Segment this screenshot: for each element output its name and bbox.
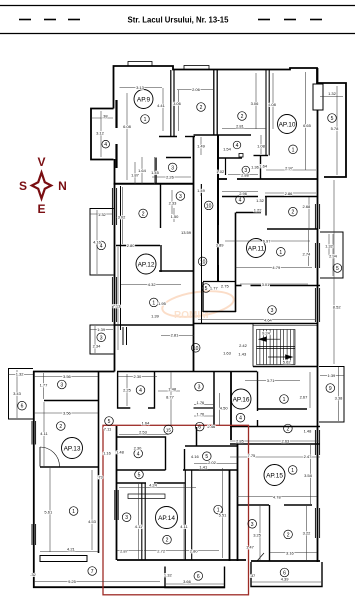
- right balcony 9: [319, 367, 344, 423]
- shaft rect top right: [313, 84, 323, 110]
- AP15 walls: [230, 443, 320, 445]
- svg-text:.38: .38: [102, 113, 108, 118]
- svg-text:1.22: 1.22: [254, 208, 263, 213]
- svg-text:1.47: 1.47: [246, 544, 255, 549]
- svg-text:2.85: 2.85: [236, 439, 245, 444]
- corridor east wall: [217, 135, 219, 281]
- AP16 kitchen box: [118, 372, 131, 408]
- svg-text:3.58: 3.58: [304, 473, 313, 478]
- AP9 divider wall: [170, 70, 172, 137]
- svg-text:.37: .37: [250, 573, 256, 578]
- svg-text:AP.9: AP.9: [137, 97, 151, 104]
- svg-text:4: 4: [239, 416, 242, 422]
- svg-text:2: 2: [200, 105, 203, 111]
- svg-text:2.96: 2.96: [239, 191, 248, 196]
- svg-text:2: 2: [292, 210, 295, 216]
- window left wall upper: [111, 188, 113, 225]
- svg-text:2.47: 2.47: [304, 454, 313, 459]
- svg-text:9.24: 9.24: [262, 331, 271, 336]
- svg-text:2.97: 2.97: [285, 166, 294, 171]
- title dashed street centerline: [19, 19, 322, 21]
- svg-text:7.75: 7.75: [248, 453, 257, 458]
- svg-text:3: 3: [100, 335, 103, 341]
- AP9 bath box: [155, 158, 157, 185]
- svg-text:AP.12: AP.12: [138, 262, 155, 269]
- svg-text:1.43: 1.43: [238, 352, 247, 357]
- svg-text:1.63: 1.63: [223, 351, 232, 356]
- svg-text:1.02: 1.02: [216, 169, 225, 174]
- svg-text:4.64: 4.64: [264, 317, 273, 322]
- svg-text:6: 6: [198, 425, 201, 431]
- outer wall top AP.9 and right side: [114, 66, 347, 177]
- svg-text:5: 5: [336, 266, 339, 272]
- svg-text:3: 3: [179, 194, 182, 200]
- svg-text:1.50: 1.50: [171, 214, 180, 219]
- svg-text:2.63: 2.63: [282, 439, 291, 444]
- svg-text:5: 5: [108, 419, 111, 425]
- svg-text:6.65: 6.65: [303, 123, 312, 128]
- svg-text:N: N: [58, 179, 67, 193]
- svg-text:2.34: 2.34: [93, 343, 102, 348]
- title bottom rule: [0, 33, 355, 35]
- svg-text:1.39: 1.39: [328, 373, 337, 378]
- svg-text:8.77: 8.77: [166, 395, 175, 400]
- svg-text:4.78: 4.78: [273, 494, 282, 499]
- svg-text:5.61: 5.61: [44, 510, 53, 515]
- bottom wall: [33, 586, 225, 588]
- svg-text:4: 4: [139, 388, 142, 394]
- left wall main: [114, 159, 116, 372]
- svg-text:4.11: 4.11: [180, 524, 188, 529]
- svg-text:2.94: 2.94: [329, 253, 338, 258]
- svg-text:1: 1: [292, 147, 295, 153]
- svg-text:10: 10: [193, 346, 199, 352]
- svg-text:4.11: 4.11: [135, 524, 143, 529]
- svg-text:7.13: 7.13: [113, 303, 122, 308]
- svg-text:1: 1: [144, 117, 147, 123]
- svg-text:9: 9: [329, 386, 332, 392]
- svg-text:3: 3: [125, 515, 128, 521]
- svg-text:2: 2: [142, 211, 145, 217]
- svg-text:5.62: 5.62: [283, 360, 292, 365]
- svg-text:2.74: 2.74: [303, 251, 312, 256]
- svg-text:2.30: 2.30: [134, 446, 143, 451]
- svg-text:4: 4: [239, 198, 242, 204]
- svg-text:1.77: 1.77: [210, 286, 219, 291]
- balcony parapet above AP.10: [184, 66, 209, 70]
- svg-text:S: S: [19, 179, 27, 193]
- svg-text:5.51: 5.51: [219, 513, 228, 518]
- svg-text:3.56: 3.56: [63, 374, 72, 379]
- AP13 interior: [44, 400, 98, 402]
- AP12 interior: [120, 186, 122, 330]
- svg-text:2.81: 2.81: [236, 124, 245, 129]
- svg-text:1.45: 1.45: [151, 170, 160, 175]
- svg-text:4.16: 4.16: [93, 240, 102, 245]
- left balcony 3 lower: [90, 325, 114, 354]
- right outer wall: [317, 68, 319, 562]
- AP9/AP10 party wall: [213, 70, 215, 135]
- svg-text:1.64: 1.64: [259, 163, 268, 168]
- svg-text:1.32: 1.32: [164, 573, 173, 578]
- svg-text:3: 3: [171, 165, 174, 171]
- window left wall lower: [111, 277, 113, 322]
- svg-text:.32: .32: [30, 572, 36, 577]
- corridor west wall: [193, 137, 195, 372]
- svg-text:2.86: 2.86: [285, 191, 294, 196]
- AP14 west party wall: [116, 426, 118, 560]
- svg-text:1.32: 1.32: [328, 91, 337, 96]
- svg-text:1: 1: [283, 397, 286, 403]
- svg-text:1.64: 1.64: [138, 168, 147, 173]
- svg-text:15: 15: [166, 428, 172, 433]
- AP16 top wall: [117, 371, 257, 373]
- svg-text:AP.10: AP.10: [279, 122, 296, 129]
- AP.13 left wall: [33, 371, 35, 588]
- svg-text:4: 4: [104, 142, 107, 148]
- svg-text:1.64: 1.64: [142, 420, 151, 425]
- svg-text:2.81: 2.81: [171, 333, 180, 338]
- AP9/12 big horizontal wall: [114, 183, 194, 185]
- left shaft block 4: [91, 109, 114, 160]
- svg-text:2.80: 2.80: [190, 548, 199, 553]
- svg-text:5: 5: [205, 286, 208, 292]
- dimension texts: [13, 85, 343, 584]
- right balcony 5 lower mid: [320, 232, 343, 278]
- svg-text:2.53: 2.53: [139, 429, 148, 434]
- svg-text:13.59: 13.59: [181, 230, 192, 235]
- svg-text:3.66: 3.66: [183, 579, 192, 584]
- svg-text:3.06: 3.06: [173, 101, 182, 106]
- svg-text:2.88: 2.88: [241, 173, 250, 178]
- AP.13 left balcony 6: [9, 369, 34, 420]
- svg-text:2.68: 2.68: [303, 204, 312, 209]
- svg-text:2.72: 2.72: [157, 548, 166, 553]
- svg-text:1.32: 1.32: [325, 244, 334, 249]
- svg-text:9.25: 9.25: [68, 579, 77, 584]
- svg-text:3.43: 3.43: [13, 391, 22, 396]
- svg-text:10: 10: [206, 203, 212, 209]
- svg-text:3.38: 3.38: [335, 396, 344, 401]
- svg-text:2.26: 2.26: [166, 175, 175, 180]
- svg-text:4.53: 4.53: [88, 519, 97, 524]
- room number circles: [18, 103, 342, 581]
- svg-text:AP.11: AP.11: [248, 246, 265, 253]
- svg-text:1.87: 1.87: [131, 172, 140, 177]
- svg-text:10: 10: [200, 259, 206, 265]
- svg-text:2.67: 2.67: [300, 395, 309, 400]
- svg-text:3.22: 3.22: [303, 530, 312, 535]
- svg-text:8.52: 8.52: [333, 304, 342, 309]
- watermark swoosh: [161, 287, 236, 321]
- svg-text:3.02: 3.02: [118, 214, 127, 219]
- window AP13 left wall: [31, 524, 33, 545]
- svg-text:Str. Lacul Ursului, Nr. 13-15: Str. Lacul Ursului, Nr. 13-15: [128, 15, 230, 24]
- svg-text:3.13: 3.13: [136, 85, 145, 90]
- svg-text:5.78: 5.78: [331, 126, 340, 131]
- AP14 interior: [117, 482, 146, 484]
- svg-text:1.32: 1.32: [16, 372, 25, 377]
- svg-text:1.54: 1.54: [223, 147, 232, 152]
- svg-text:2.25: 2.25: [123, 388, 132, 393]
- svg-text:7: 7: [91, 569, 94, 575]
- windows right wall: [314, 204, 316, 229]
- door swing AP.15 balcony: [257, 553, 264, 561]
- svg-text:1.76: 1.76: [197, 412, 206, 417]
- svg-text:1.76: 1.76: [197, 400, 206, 405]
- svg-text:6.08: 6.08: [123, 124, 132, 129]
- left balcony AP.12: [90, 209, 114, 276]
- AP16 interior: [258, 408, 308, 410]
- svg-text:1.77: 1.77: [40, 383, 49, 388]
- svg-text:6: 6: [197, 574, 200, 580]
- svg-text:1.49: 1.49: [197, 188, 206, 193]
- svg-text:3.56: 3.56: [63, 411, 72, 416]
- svg-text:2: 2: [287, 427, 290, 433]
- svg-text:2: 2: [59, 424, 62, 430]
- svg-text:4.50: 4.50: [220, 406, 229, 411]
- AP.13 top wall: [33, 371, 115, 373]
- red highlight rectangle AP.14: [103, 425, 249, 595]
- svg-text:4.24: 4.24: [149, 483, 158, 488]
- svg-text:3: 3: [198, 385, 201, 391]
- svg-text:3: 3: [60, 383, 63, 389]
- stair hall bottom wall: [253, 366, 317, 368]
- svg-text:6.97: 6.97: [263, 239, 272, 244]
- AP10 interior: [194, 134, 252, 136]
- title top rule: [0, 5, 355, 7]
- svg-text:1.48: 1.48: [168, 387, 177, 392]
- svg-text:3.06: 3.06: [251, 101, 260, 106]
- svg-text:4.16: 4.16: [191, 454, 200, 459]
- svg-text:2.30: 2.30: [134, 374, 143, 379]
- svg-text:4.08: 4.08: [268, 102, 277, 107]
- stair hall top wall: [194, 323, 318, 325]
- svg-text:1.48: 1.48: [304, 428, 313, 433]
- svg-text:3: 3: [271, 308, 274, 314]
- svg-text:1.39: 1.39: [97, 327, 106, 332]
- svg-text:3.01: 3.01: [262, 282, 271, 287]
- svg-text:E: E: [37, 202, 45, 216]
- svg-text:4: 4: [137, 452, 140, 458]
- svg-text:1: 1: [72, 509, 75, 515]
- svg-text:4.32: 4.32: [148, 282, 157, 287]
- svg-text:AP.13: AP.13: [64, 446, 81, 453]
- AP14 bathroom box: [117, 437, 166, 470]
- AP.13 terrace 7 parapet: [40, 556, 87, 562]
- AP11 interior: [222, 196, 258, 198]
- svg-text:AP.14: AP.14: [158, 515, 175, 522]
- svg-text:4.11: 4.11: [40, 431, 48, 436]
- svg-text:3.25: 3.25: [253, 532, 262, 537]
- svg-text:1.32: 1.32: [98, 212, 107, 217]
- svg-text:1.48: 1.48: [116, 450, 125, 455]
- svg-text:3.16: 3.16: [286, 550, 295, 555]
- svg-text:1.08: 1.08: [257, 144, 266, 149]
- svg-text:2.02: 2.02: [208, 460, 217, 465]
- window AP14 west wall: [114, 490, 116, 520]
- balcony parapet above AP.9: [128, 62, 152, 67]
- svg-text:3.12: 3.12: [96, 131, 105, 136]
- AP12 living room bottom wall: [114, 324, 194, 326]
- svg-text:3.71: 3.71: [267, 378, 276, 383]
- svg-text:4.79: 4.79: [272, 265, 281, 270]
- svg-text:7.11: 7.11: [104, 427, 112, 432]
- svg-text:3: 3: [251, 522, 254, 528]
- svg-text:1.32: 1.32: [256, 198, 265, 203]
- compass rose: [32, 173, 51, 199]
- svg-text:AP.16: AP.16: [233, 397, 250, 404]
- svg-text:1: 1: [291, 468, 294, 474]
- svg-text:4.39: 4.39: [281, 577, 290, 582]
- balcony door leaf AP.12: [122, 327, 124, 345]
- svg-text:2: 2: [287, 532, 290, 538]
- svg-text:6: 6: [21, 404, 24, 410]
- svg-text:3.89: 3.89: [216, 242, 225, 247]
- svg-text:5: 5: [138, 473, 141, 479]
- svg-text:4: 4: [236, 143, 239, 149]
- svg-text:2: 2: [241, 114, 244, 120]
- svg-text:4.41: 4.41: [157, 103, 166, 108]
- svg-text:2.42: 2.42: [239, 343, 248, 348]
- AP9 kitchen wall: [159, 136, 177, 138]
- svg-text:1: 1: [279, 250, 282, 256]
- bottom balcony 6 AP.14: [165, 567, 225, 588]
- svg-text:.73: .73: [97, 475, 103, 480]
- svg-text:1.39: 1.39: [151, 314, 160, 319]
- svg-text:2.06: 2.06: [192, 87, 201, 92]
- AP13 east wall: [98, 371, 100, 553]
- svg-text:1: 1: [152, 300, 155, 306]
- svg-text:2.33: 2.33: [169, 200, 178, 205]
- svg-text:AP.15: AP.15: [266, 473, 283, 480]
- svg-text:1.16: 1.16: [103, 451, 112, 456]
- svg-text:2: 2: [166, 538, 169, 544]
- svg-text:4.21: 4.21: [67, 547, 76, 552]
- svg-text:1.49: 1.49: [197, 143, 206, 148]
- svg-text:5: 5: [331, 116, 334, 122]
- svg-text:V: V: [37, 155, 45, 169]
- svg-text:2.75: 2.75: [221, 283, 230, 288]
- svg-text:2.46: 2.46: [207, 424, 216, 429]
- svg-text:2.87: 2.87: [120, 548, 129, 553]
- svg-text:1.41: 1.41: [199, 465, 208, 470]
- staircase: [253, 324, 317, 367]
- svg-text:2.80: 2.80: [127, 243, 136, 248]
- svg-text:1.95: 1.95: [158, 301, 167, 306]
- bottom right balcony 6 AP.15: [251, 562, 322, 587]
